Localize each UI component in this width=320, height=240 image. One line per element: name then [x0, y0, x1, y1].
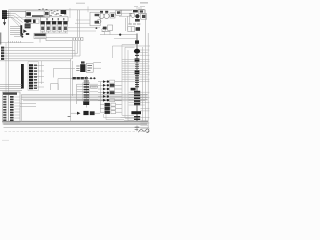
wire right of JB1 down to band	[21, 95, 23, 122]
chain rungs upper	[135, 55, 139, 86]
chain connector bar CB7 (wide)	[131, 111, 141, 114]
hatched strip H1	[34, 33, 46, 42]
relay box J (top right-center)	[116, 10, 122, 15]
wire from motor right	[93, 63, 101, 69]
ground arrow below J1	[3, 22, 6, 25]
fuse row B frame	[26, 19, 39, 23]
lamp row L3	[100, 111, 104, 113]
frame bottom thin line	[4, 127, 150, 129]
lamp row L2	[100, 107, 104, 109]
box H marks	[95, 14, 99, 16]
left bus into block	[0, 85, 22, 91]
sensor row bottom-center arrow	[71, 112, 77, 114]
cluster L blob lower	[135, 19, 140, 22]
small connector bus into bar	[10, 27, 20, 35]
stack S1 left rail	[76, 84, 78, 104]
chain connector rung stack CB8	[134, 116, 140, 120]
frame bottom band fill	[3, 121, 149, 124]
chain connector blob CB1	[135, 40, 139, 43]
wire from J1 down	[4, 19, 6, 22]
component cluster F dashes	[39, 9, 60, 14]
gauge G1 circle	[99, 13, 104, 18]
battery bar W1 (thick dark vertical)	[21, 64, 24, 89]
relay bay outline (empty, left of A1)	[10, 11, 26, 17]
switch bank D frame	[40, 17, 68, 22]
relay A2 cell	[45, 12, 49, 15]
wire stub above box H	[87, 6, 89, 12]
arrow marker right of C3	[23, 29, 27, 33]
nested box bottom edges around lamp rows	[103, 114, 134, 120]
gauge G3 circle small	[97, 19, 101, 23]
fuse B2	[33, 20, 36, 23]
chain connector blob CB3	[135, 58, 140, 62]
stack S1 frame	[83, 83, 90, 102]
sensor row dark boxes	[83, 111, 88, 115]
junction block JB1 outline (bottom-left)	[2, 92, 20, 122]
chain spine tail	[136, 126, 138, 132]
JB1 terminal column 2 rungs	[10, 96, 14, 121]
harness box right inner lines	[140, 50, 150, 55]
connector J1 (top-left, dark multi-pin)	[2, 10, 10, 19]
ruler ticks above mid wire	[9, 41, 21, 43]
connector bar C3	[20, 25, 22, 36]
motor M1 small parts left	[76, 66, 79, 71]
faint text above cluster L	[134, 7, 145, 8]
diode row D4	[98, 92, 103, 94]
wire bundle diagonal runs	[11, 13, 25, 26]
control box H outline	[90, 12, 100, 26]
fuse bank E cell 3	[52, 21, 56, 31]
terminal ladder T1 rungs column 2 (lighter)	[34, 65, 37, 90]
feed stubs from cluster K	[105, 31, 111, 35]
small box corner center-left	[51, 84, 59, 90]
cluster M dashes	[128, 23, 140, 25]
harness box corners bottom	[122, 115, 134, 121]
node dot small	[26, 33, 29, 35]
chain connector bar CB5	[131, 88, 136, 91]
wire L-bend center	[54, 68, 76, 77]
vertical wire right of ladder	[41, 61, 43, 84]
harness feed wire second	[114, 38, 137, 40]
harness box verticals left	[122, 45, 128, 121]
motor M1 armature (dark)	[80, 64, 85, 72]
bottom-left tick	[2, 139, 9, 141]
harness box tops	[112, 45, 150, 47]
wire left mid	[0, 42, 34, 44]
diode row D3	[98, 88, 103, 90]
cluster K marks	[102, 30, 111, 32]
diode row D6	[98, 99, 103, 101]
lamp box right of gauges	[110, 13, 115, 18]
resistor R1 row (dark segmented bar)	[73, 77, 88, 79]
JB1 top bar	[3, 92, 17, 94]
stack S1 right stubs	[90, 84, 98, 100]
terminal ladder T1 frame	[28, 62, 38, 91]
relay J cell	[117, 11, 120, 14]
relay box A1 (top)	[26, 11, 45, 17]
gauge G2 cap	[105, 11, 108, 13]
bottom dashed line	[5, 131, 138, 133]
stack S1 cells	[84, 84, 89, 101]
bus wires upper-left	[4, 47, 72, 49]
wire long left	[0, 60, 71, 62]
cluster L small marks	[129, 14, 132, 16]
resistor R1 leads	[88, 77, 96, 79]
vertical wires x77-79 top	[77, 10, 79, 38]
gauge G1 cap	[100, 11, 103, 13]
title text top-right	[140, 2, 148, 4]
diode row D5	[98, 95, 103, 97]
vertical wire pair center long	[71, 59, 73, 122]
wire box H internal	[75, 20, 90, 23]
wires J to right	[119, 11, 132, 14]
chain connector blob CB4	[135, 70, 140, 74]
harness chain spine (right)	[136, 34, 138, 122]
wire stub left	[69, 8, 71, 18]
cluster M corner wires	[126, 13, 130, 31]
diode rows left rail	[100, 82, 102, 112]
motor M1 terminal box	[86, 63, 93, 72]
frame inner left border	[5, 43, 7, 124]
chain connector blob CB2 (ellipse)	[134, 49, 140, 54]
harness wires upper (full span)	[122, 59, 150, 81]
wire mid top second	[68, 30, 96, 32]
frame bottom band lower edge	[4, 123, 148, 125]
cluster M double box	[128, 27, 135, 32]
diode row D2	[98, 84, 103, 86]
relay F2 (dark box)	[61, 10, 67, 14]
top wire center	[68, 9, 119, 11]
cluster M dark cells	[136, 27, 140, 31]
thin strip H2	[46, 37, 83, 40]
vertical drops from bank E	[43, 31, 66, 33]
chain tail marks below band	[135, 127, 140, 129]
cluster K box	[108, 25, 113, 30]
cluster K circle	[102, 28, 106, 32]
chain connector blob CB6	[134, 91, 140, 106]
stub mark	[68, 115, 71, 117]
center connector stack S1 spine	[85, 76, 87, 108]
node dots with stubs (left)	[14, 34, 22, 36]
bottom-right signature squiggle	[139, 129, 149, 133]
JB1 inner wires	[14, 97, 20, 118]
cluster L circle	[131, 13, 135, 17]
wire L-bend center 2	[58, 79, 75, 90]
fuse bank E cell 4	[58, 21, 62, 31]
gauge G2 circle	[104, 13, 109, 18]
stack S1 top marks	[84, 81, 89, 82]
vertical drop wires center	[72, 41, 80, 59]
frame bottom band top edge	[3, 120, 149, 122]
harness wires lower (full span)	[129, 92, 150, 105]
top-right cluster L bar	[133, 10, 138, 12]
cluster L box1	[139, 9, 145, 13]
switch bank D inner marks	[47, 18, 64, 20]
stack S1 left stubs	[77, 84, 84, 100]
terminal ladder T1 rungs column 1 (dark)	[29, 64, 33, 89]
wire stubs from ladder right	[37, 65, 44, 87]
fuse bank E cell 2	[46, 21, 50, 31]
motor M1 terminal marks	[87, 65, 92, 70]
sensor row lead	[95, 112, 100, 114]
harness rung wires bottom	[121, 117, 135, 120]
frame left border	[8, 10, 10, 122]
wire stub pair left-center	[20, 104, 36, 107]
fuse bank E cell 1	[41, 21, 45, 31]
wire left edge	[0, 33, 2, 45]
motor M1 cap	[81, 61, 85, 63]
cluster K blob	[103, 27, 107, 30]
diode row D1	[98, 81, 103, 83]
frame right border lines	[143, 10, 149, 128]
cluster L blob circle	[135, 14, 139, 18]
fuse bank E cell 5	[63, 21, 67, 31]
relay A1 coil bar	[32, 15, 44, 17]
relay box A2	[44, 11, 49, 17]
connector C2 block (dark, left-center top)	[24, 19, 31, 28]
fuse B1	[26, 20, 29, 23]
center bus wires	[21, 93, 148, 95]
connector P1 (left edge block)	[1, 47, 4, 60]
marks above bank D	[45, 14, 67, 17]
relay A1 contacts	[26, 12, 31, 16]
top inner wire	[10, 11, 26, 13]
relay S2 (dark box below stack)	[83, 101, 89, 105]
wire mid top	[68, 27, 100, 29]
title text top-center	[76, 3, 85, 4]
cluster L box2	[141, 14, 147, 20]
wire bundle J1 to top cluster	[10, 11, 27, 17]
harness feed wire top	[100, 34, 137, 36]
lamp row L1	[100, 104, 104, 106]
wire under bank E	[40, 32, 68, 34]
JB1 terminal column 1 rungs	[3, 96, 6, 121]
frame outer border top edge	[9, 9, 146, 11]
small box pair right of stack	[91, 85, 98, 88]
wire into L from left	[119, 15, 131, 17]
JB1 center rail	[7, 95, 9, 122]
